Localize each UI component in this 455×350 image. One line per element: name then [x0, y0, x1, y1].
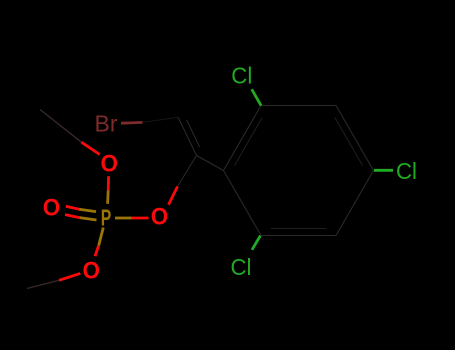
svg-text:O: O — [151, 204, 169, 231]
svg-text:Br: Br — [95, 111, 118, 137]
benzene ring edge E-F (lower left) — [224, 171, 262, 236]
wire P=O upper line, O half — [66, 206, 79, 209]
wire C1=C2 vinyl double bond main line — [178, 117, 197, 156]
wire C1=C2 vinyl double bond second line — [187, 120, 200, 147]
svg-text:O: O — [43, 195, 61, 222]
wire P-O(bottom) bond, O half — [95, 246, 99, 257]
benzene ring inner double line D-E — [271, 228, 327, 230]
wire C-Cl(top) bond — [252, 89, 261, 105]
wire P-O(right) bond, P half — [115, 217, 132, 220]
wire O(right)-C1 bond, O half — [169, 187, 178, 205]
svg-text:P: P — [101, 204, 112, 230]
wire Br-C2 bond, Br half — [121, 121, 143, 125]
benzene ring inner double line F-A — [235, 118, 263, 166]
wire C-Cl(bottom) bond — [252, 236, 260, 250]
svg-text:Cl: Cl — [231, 254, 252, 280]
wire P-O(bottom) bond, P half — [99, 228, 104, 246]
svg-text:Cl: Cl — [231, 62, 252, 88]
wire O(top)-P bond, P half — [106, 190, 109, 204]
wire O(bottom)-CH3 bond, O half — [59, 273, 80, 280]
svg-text:O: O — [83, 258, 101, 285]
benzene ring inner double line B-C — [335, 118, 363, 166]
svg-text:O: O — [101, 151, 119, 178]
wire C-Cl(right) bond — [374, 169, 393, 172]
wire P=O lower line, P half — [80, 218, 97, 220]
wire O(right)-C1 bond, C half — [178, 156, 197, 187]
wire P-O(right) bond, O half — [132, 217, 149, 220]
svg-text:Cl: Cl — [396, 158, 417, 184]
benzene ring edge A-B (top) — [261, 105, 336, 107]
wire CH3-O(top) bond, O half — [81, 142, 99, 154]
wire Br-C2 bond, C half — [143, 117, 179, 122]
wire O(bottom)-CH3 bond, C half — [27, 280, 59, 288]
benzene ring edge B-C (upper right) — [336, 106, 374, 171]
wire CH3-O(top) bond, C half — [40, 110, 81, 143]
benzene ring edge F-A (upper left) — [224, 106, 262, 171]
benzene ring edge D-E (bottom) — [261, 235, 336, 237]
benzene ring edge C-D (lower right) — [336, 171, 374, 236]
wire P=O lower line, O half — [65, 215, 80, 218]
wire O(top)-P bond, O half — [107, 176, 110, 190]
wire C1-ring ipso bond — [197, 156, 224, 171]
wire P=O upper line, P half — [79, 209, 96, 211]
